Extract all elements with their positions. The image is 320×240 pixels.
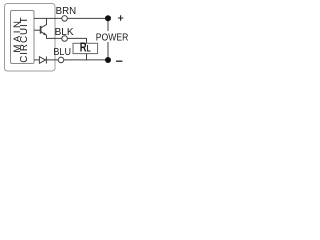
svg-text:BRN: BRN [56, 6, 77, 17]
minus sign [116, 60, 123, 62]
load resistor RL box [73, 43, 98, 53]
svg-text:POWER: POWER [96, 33, 128, 44]
svg-text:BLU: BLU [53, 47, 71, 58]
sensor housing [5, 4, 56, 72]
terminal circle BLU [58, 57, 64, 63]
diode D1 cathode bar [45, 57, 47, 64]
svg-text:CIRCUIT: CIRCUIT [19, 17, 30, 63]
wire BLU [34, 59, 108, 61]
terminal circle BRN [62, 16, 68, 22]
power rail [107, 18, 109, 60]
junction node + [105, 15, 111, 21]
svg-text:BLK: BLK [55, 27, 74, 38]
main circuit box [11, 11, 35, 64]
transistor Q1 emitter [41, 32, 46, 35]
junction node - [105, 57, 111, 63]
transistor Q1 emitter arrow [43, 32, 46, 35]
wire base [34, 29, 40, 31]
wire BRN [34, 17, 108, 19]
wire RL to BLU [86, 54, 88, 60]
POWER label background [95, 31, 128, 42]
terminal circle BLK [62, 36, 68, 42]
wire collector [41, 18, 46, 27]
plus sign [118, 15, 123, 21]
diode D1 [39, 57, 45, 64]
wire emitter to BLK [47, 35, 87, 43]
transistor Q1 base bar [40, 26, 42, 34]
